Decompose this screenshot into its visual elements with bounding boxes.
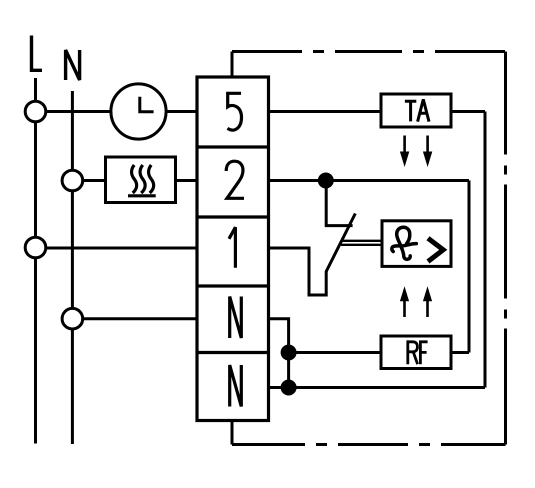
sensor greater-than symbol (428, 238, 443, 261)
wire terminal 2 to inner circuit (top edge) (269, 179, 470, 182)
enclosure boundary top (dash-dot) (232, 50, 506, 53)
wire L to terminal 1 (46, 247, 197, 250)
inner circuit right edge (468, 181, 471, 353)
wire TA to right drop (451, 110, 485, 113)
enclosure boundary bottom (dash-dot) (232, 443, 506, 446)
terminal N label (4th) (230, 297, 242, 339)
mechanical link lower line (341, 244, 382, 246)
sensor theta symbol (397, 227, 411, 259)
mechanical link upper line (341, 240, 382, 242)
wire N to heater (83, 179, 106, 182)
terminal block divider 2 (197, 215, 269, 218)
wire RF to inner right edge (451, 351, 469, 354)
terminal block divider 3 (197, 284, 269, 287)
enclosure boundary right (dash-dot) (504, 52, 507, 445)
wire terminal N to junction dots (269, 319, 289, 388)
RF label R (408, 342, 418, 364)
terminal 5 label (228, 93, 242, 130)
terminal circle on N at heater wire (62, 170, 83, 191)
TA label T (405, 101, 416, 121)
wire N line lower (71, 329, 74, 444)
junction dot RF (281, 345, 297, 361)
terminal circle on L at terminal 1 wire (25, 237, 46, 258)
TA label A (418, 99, 429, 121)
terminal block outline (197, 77, 269, 421)
terminal block divider 1 (197, 145, 269, 148)
heater wave 1 (132, 165, 137, 193)
wire right drop (TA to N net) (484, 112, 487, 388)
wire N line middle (71, 191, 74, 309)
junction dot at switch tap (318, 173, 334, 189)
arrow down 2 (TA signal) (423, 136, 432, 168)
terminal circle on N at terminal N wire (62, 308, 83, 329)
RF label F (420, 342, 427, 364)
heater wave 2 (140, 165, 145, 193)
wire L line middle (34, 122, 37, 238)
junction dot N net (281, 380, 297, 396)
time switch hands (140, 97, 154, 112)
wire terminal 1 to switch (staircase) (269, 248, 327, 295)
terminal 1 label (229, 227, 235, 267)
terminal 2 label (226, 161, 244, 198)
TA box (381, 94, 451, 127)
wire time switch to terminal 5 (166, 110, 197, 113)
thermostat sensor box (382, 221, 451, 267)
wire terminal 5 to TA (269, 110, 382, 113)
wire N line upper (71, 91, 74, 171)
wire terminal block bottom to enclosure (231, 421, 234, 445)
heater base line (128, 194, 156, 197)
terminal circle on L at clock wire (25, 101, 46, 122)
heater box (106, 157, 176, 203)
switch fixed contact (326, 184, 352, 226)
wire heater to terminal 2 (176, 179, 198, 182)
node N label (66, 50, 80, 80)
wire bottom N net (269, 386, 486, 389)
wire terminal block top to enclosure (231, 52, 234, 78)
wire junction to RF (289, 351, 381, 354)
wire L line lower (34, 258, 37, 444)
node L label (32, 36, 43, 71)
switch blade (326, 214, 355, 272)
terminal block divider 4 (197, 351, 269, 354)
terminal N label (5th) (230, 365, 242, 407)
wire L to time switch (46, 110, 111, 113)
arrow up 1 (sensor feedback) (400, 286, 409, 317)
wire N to terminal N (83, 317, 197, 320)
heater wave 3 (149, 165, 154, 193)
time switch circle (111, 84, 166, 139)
arrow down 1 (TA signal) (400, 136, 409, 168)
arrow up 2 (sensor feedback) (423, 286, 432, 317)
wire L line upper (34, 78, 37, 102)
RF box (381, 336, 451, 369)
